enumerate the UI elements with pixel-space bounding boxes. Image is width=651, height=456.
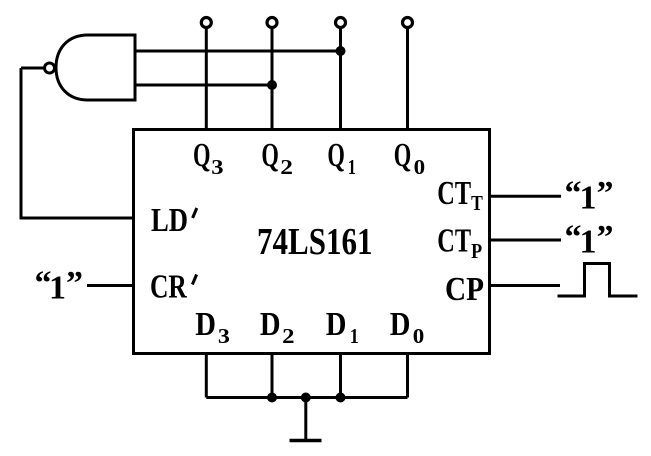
prime tick of CR' [192,275,196,285]
svg-text:Q: Q [261,137,279,174]
svg-text:Q: Q [327,137,345,174]
svg-text:0: 0 [413,324,425,348]
wire: D3 pin vertical [205,354,208,398]
nand gate U1 output bubble [45,63,55,73]
prime tick of LD' [193,208,197,218]
nand gate U1 body (mirrored, output left) [56,35,135,100]
svg-text:”: ” [597,219,614,256]
svg-text:D: D [260,306,281,343]
terminal circle Q2 [267,18,277,28]
svg-text:74LS161: 74LS161 [257,221,373,263]
wire: horizontal into LD' pin [20,217,134,220]
svg-text:LD: LD [151,202,188,239]
wire: CT_P pin stub [490,239,562,242]
wire: nand bottom input to Q2 column [135,84,272,87]
clock pulse waveform [558,264,638,297]
wire: ground stem [304,398,307,441]
svg-text:CR: CR [150,269,187,306]
terminal circle Q3 [201,18,211,28]
svg-text:1: 1 [580,224,597,261]
svg-text:2: 2 [282,324,294,348]
svg-text:Q: Q [193,137,211,174]
svg-text:1: 1 [49,269,66,306]
svg-text:1: 1 [350,324,359,348]
svg-text:”: ” [66,265,83,302]
svg-text:3: 3 [211,155,223,179]
ground bar [290,439,322,443]
svg-text:1: 1 [580,180,597,217]
junction dot at nand bottom input / Q2 [267,80,277,90]
wire: Q3 pin vertical [205,28,208,130]
wire: Q0 pin vertical [406,28,409,130]
wire: Q2 pin vertical [271,28,274,130]
svg-text:Q: Q [394,137,412,174]
wire: bottom bus [206,396,407,399]
svg-text:CP: CP [445,271,484,308]
svg-text:D: D [195,306,216,343]
svg-text:1: 1 [348,155,356,179]
terminal circle Q1 [336,18,346,28]
wire: "1" into CR' pin [87,284,133,287]
wire: CP pin stub [490,284,561,287]
wire: bubble to left vertical [21,67,45,70]
svg-text:P: P [471,239,482,263]
junction dot at nand top input / Q1 [336,46,346,56]
terminal circle Q0 [403,18,413,28]
junction dot bus/D2 [267,393,277,403]
svg-text:CT: CT [437,175,471,212]
svg-text:CT: CT [437,223,471,260]
wire: D1 pin vertical [339,354,342,398]
wire: D0 pin vertical [406,354,409,398]
junction dot bus/D1 [336,393,346,403]
svg-text:0: 0 [414,155,426,179]
wire: nand top input to Q1 column [135,50,341,53]
wire: Q1 pin vertical [339,28,342,130]
svg-text:2: 2 [280,155,293,179]
wire: CT_T pin stub [490,195,562,198]
svg-text:D: D [390,306,411,343]
wire: D2 pin vertical [271,354,274,398]
wire: left vertical down to LD' [20,68,23,218]
svg-text:D: D [326,306,347,343]
svg-text:3: 3 [218,324,230,348]
svg-text:”: ” [597,175,614,212]
junction dot bus/ground [301,393,311,403]
svg-text:T: T [471,191,483,215]
chip U2 74LS161 box [134,130,490,354]
